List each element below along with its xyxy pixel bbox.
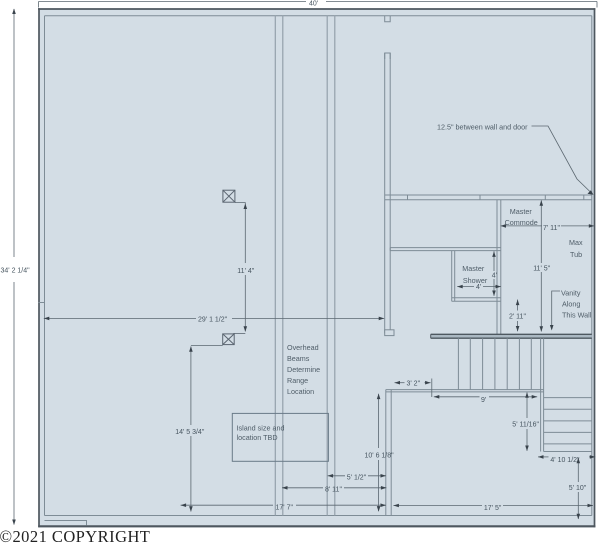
svg-text:Determine: Determine [287,365,320,374]
dim 4' shower horizontal [457,286,501,288]
svg-text:Vanity: Vanity [561,288,581,297]
svg-text:5' 10": 5' 10" [569,485,587,492]
beam wall A left line [274,16,276,516]
wall W1 vertical [385,53,391,333]
svg-text:17' 7": 17' 7" [276,504,294,511]
svg-text:11' 5": 11' 5" [533,266,550,273]
svg-text:4': 4' [492,272,497,279]
svg-text:©2021 COPYRIGHT: ©2021 COPYRIGHT [0,527,150,544]
inner wall line bottom [45,515,592,517]
svg-text:7' 11": 7' 11" [543,225,560,232]
bottom-left wall notch [45,521,87,526]
dim 4' shower vertical [493,251,495,296]
dim 11' 5" vertical [540,200,542,331]
svg-text:Along: Along [562,299,580,308]
top overall dimension line [39,2,598,8]
beam wall B left line [326,16,328,516]
dim 11' 4" vertical [233,203,245,334]
svg-text:5' 1/2": 5' 1/2" [347,475,367,482]
wall W1 top jamb [385,16,391,22]
dim 17' 5" [393,505,593,507]
svg-text:Beams: Beams [287,354,310,363]
dim 17' 7" [181,504,386,506]
dim 5' 11/16" vertical [526,393,528,451]
inner wall line right [591,16,593,516]
svg-text:Commode: Commode [505,218,538,227]
svg-text:Location: Location [287,387,314,396]
dim 8' 11" [282,487,386,489]
dim 7' 11" commode [501,225,595,227]
dim 3' 2" [395,379,432,398]
return flight bottom edge [544,451,592,453]
12.5" note leader line [532,126,593,194]
return flight treads [544,398,592,444]
shower west wall W3 [452,251,455,302]
wall W5 vertical [386,390,391,516]
vanity leader line [552,291,560,329]
ceiling box symbol 1 [223,190,235,202]
beam wall B right line [334,16,336,516]
upper flight treads [458,338,531,389]
svg-text:Range: Range [287,376,308,385]
dim 10' 6 1/8" vertical [378,394,380,512]
svg-text:12.5" between wall and door: 12.5" between wall and door [437,123,528,132]
svg-text:Master: Master [462,264,485,273]
shower south wall H3 [452,298,501,302]
svg-text:4' 10 1/2": 4' 10 1/2" [550,457,580,464]
outer wall top [38,8,595,10]
H1 jamb ticks [408,195,584,200]
svg-text:Shower: Shower [463,276,488,285]
kitchen south wall H5 [386,390,544,392]
svg-text:9': 9' [481,397,486,404]
svg-text:This Wall: This Wall [562,311,592,320]
stair top wall H4 [431,334,592,338]
dim 5' 10" vertical [577,458,579,519]
svg-text:Overhead: Overhead [287,343,319,352]
inner wall line left [44,16,46,516]
commode right wall W2 [497,200,501,334]
svg-text:34' 2 1/4": 34' 2 1/4" [1,268,31,275]
dim 9' [434,396,537,398]
svg-text:14' 5 3/4": 14' 5 3/4" [175,429,205,436]
svg-text:40': 40' [309,1,318,8]
left wall joint tick [39,302,45,304]
outer wall left [38,8,40,527]
beam wall A right line [282,16,284,516]
outer wall right [594,8,596,527]
svg-text:Tub: Tub [570,250,582,259]
svg-text:3' 2": 3' 2" [407,380,421,387]
outer wall bottom [38,525,595,527]
svg-text:Master: Master [510,207,533,216]
dim 29' 1 1/2" [44,317,384,319]
svg-text:Max: Max [569,238,583,247]
wall W1 bottom door jamb cap [385,330,394,336]
svg-text:17' 5": 17' 5" [484,505,502,512]
left overall dimension line 34' 2 1/4" [13,9,15,525]
ceiling box symbol 2 [223,334,235,345]
bathroom north wall H1 [385,195,592,200]
svg-text:Island size and: Island size and [237,424,285,433]
svg-text:29' 1 1/2": 29' 1 1/2" [198,317,228,324]
dim 2' 11" vertical [517,300,519,332]
svg-text:11' 4": 11' 4" [237,268,254,275]
dim 14' 5 3/4" vertical [191,346,223,512]
stair flight divider wall [541,338,544,451]
dim 4' 10 1/2" [538,456,595,458]
svg-text:8' 11": 8' 11" [325,487,342,494]
commode south wall H2 [390,248,501,251]
svg-text:5' 11/16": 5' 11/16" [512,422,539,429]
svg-text:10' 6 1/8": 10' 6 1/8" [365,453,395,460]
svg-text:location TBD: location TBD [237,433,278,442]
dim 5' 1/2" [328,475,386,477]
svg-text:2' 11": 2' 11" [509,314,526,321]
inner wall line top [45,15,592,17]
island rectangle [232,413,328,461]
